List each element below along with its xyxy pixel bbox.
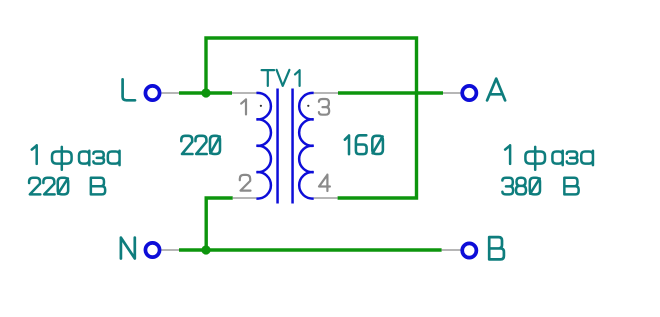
wire: lead of pin 2 [233, 197, 257, 199]
transformer TV1 core [276, 89, 279, 204]
text: 1 фаза (input) [32, 145, 120, 170]
wire: lead of terminal A [443, 92, 461, 94]
wire: lead of pin 1 [232, 92, 256, 94]
text: 220 В (input voltage) [29, 178, 105, 195]
terminal B [462, 243, 476, 257]
transformer TV1 winding 3-4 (160) [299, 93, 314, 199]
wire: L terminal to pin 1 [179, 91, 232, 94]
polarity dot at pin 3 [307, 105, 309, 107]
polarity dot at pin 1 [260, 105, 262, 107]
wire: N rail to B terminal [179, 248, 442, 251]
wire: lead of pin 4 [314, 197, 338, 199]
transformer TV1 winding 1-2 (220) [256, 93, 271, 199]
wire: pin 2 down to N rail [206, 198, 233, 250]
pin number 1 [241, 99, 246, 114]
wire: lead of terminal N [161, 249, 179, 251]
wire: top loop from L junction over to pin 4 [206, 38, 417, 198]
label TV1 [262, 70, 300, 86]
junction at N [201, 245, 210, 254]
winding value 220 [181, 136, 220, 154]
pin number 2 [240, 175, 251, 191]
wire: pin 3 to A terminal [338, 91, 443, 94]
terminal label N [121, 238, 135, 259]
terminal N [145, 243, 159, 257]
wire: lead of terminal B [442, 249, 461, 251]
junction at L [201, 88, 210, 97]
terminal label L [123, 79, 135, 100]
text: 380 В (output voltage) [502, 178, 578, 195]
terminal label B [489, 237, 504, 259]
pin number 4 [319, 175, 330, 191]
winding value 160 [345, 135, 383, 154]
wire: lead of pin 3 [314, 92, 338, 94]
terminal L [145, 86, 159, 100]
terminal A [462, 86, 476, 100]
wire: lead of terminal L [161, 92, 179, 94]
text: 1 фаза (output) [505, 145, 593, 170]
pin number 3 [319, 99, 329, 115]
terminal label A [487, 79, 505, 101]
